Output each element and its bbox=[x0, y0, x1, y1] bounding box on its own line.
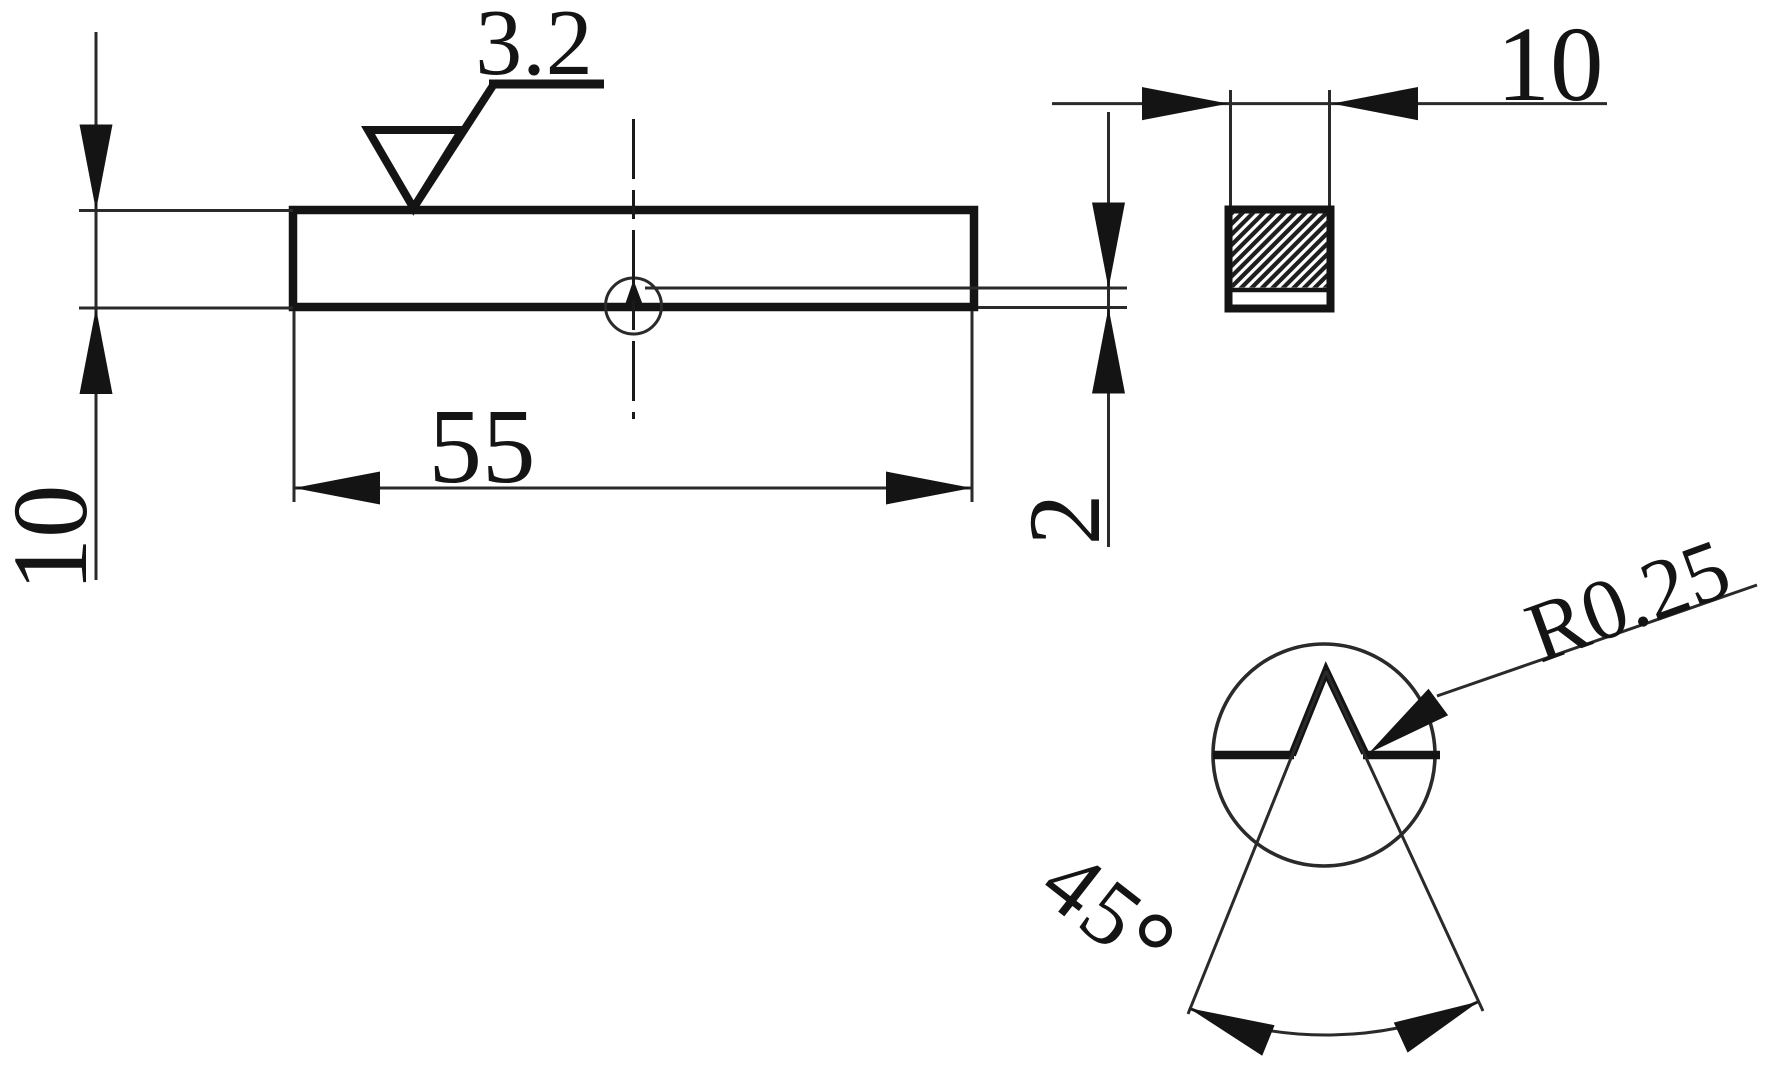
centerline bbox=[632, 119, 635, 419]
arc arrow right bbox=[1394, 1002, 1479, 1053]
notch V (filled) at bar bottom bbox=[623, 280, 645, 311]
extension line 55 right bbox=[971, 311, 974, 502]
arc arrow left bbox=[1189, 1008, 1275, 1056]
leader arrow bbox=[1369, 689, 1448, 753]
section notch line bbox=[1230, 288, 1329, 293]
detail notch V bbox=[1292, 671, 1365, 755]
detail surface line right bbox=[1363, 751, 1440, 760]
dimension line 10 left bbox=[95, 32, 98, 580]
svg-text:55: 55 bbox=[429, 388, 536, 506]
arrow left 55 bbox=[294, 472, 380, 505]
detail view circle bbox=[1213, 644, 1435, 866]
svg-text:2: 2 bbox=[1008, 494, 1122, 546]
hatching bbox=[1133, 208, 1426, 312]
arrow down 10 left bbox=[80, 125, 113, 211]
svg-text:45: 45 bbox=[1023, 829, 1163, 970]
extension line notch depth bbox=[645, 287, 1127, 290]
extension line top-left bbox=[79, 209, 293, 212]
dimension line 2 bbox=[1107, 112, 1110, 547]
svg-text:10: 10 bbox=[1497, 6, 1604, 124]
extension line square left bbox=[1229, 90, 1232, 207]
extension line square right bbox=[1328, 90, 1331, 207]
leader line R0.25 bbox=[1437, 585, 1757, 696]
dimension line 10 top bbox=[1052, 102, 1607, 105]
arrow left 10 top bbox=[1332, 87, 1418, 120]
roughness bar bbox=[489, 80, 604, 89]
svg-text:R0.25: R0.25 bbox=[1514, 520, 1742, 681]
svg-text:10: 10 bbox=[0, 485, 110, 592]
arrow right 10 top bbox=[1142, 87, 1228, 120]
surface roughness symbol triangle bbox=[368, 130, 462, 208]
extension line bar bottom right bbox=[978, 306, 1127, 309]
extension line bottom-left bbox=[79, 307, 293, 310]
arrow right 55 bbox=[886, 472, 972, 505]
wedge line left bbox=[1188, 671, 1326, 1014]
arrow up 10 left bbox=[80, 308, 113, 394]
extension line 55 left bbox=[293, 311, 296, 502]
detail surface line left bbox=[1213, 751, 1294, 760]
cross-section square bbox=[1229, 210, 1331, 309]
notch detail circle bbox=[606, 278, 662, 334]
degree circle bbox=[1142, 918, 1169, 945]
specimen bar (side view) bbox=[293, 210, 974, 307]
svg-text:3.2: 3.2 bbox=[475, 0, 593, 95]
roughness diagonal bbox=[414, 84, 495, 208]
wedge line right bbox=[1326, 671, 1483, 1011]
angle arc bbox=[1189, 1002, 1479, 1036]
arrow down 2 bbox=[1092, 203, 1125, 289]
dimension line 55 bbox=[294, 487, 972, 490]
arrow up 2 bbox=[1092, 308, 1125, 394]
